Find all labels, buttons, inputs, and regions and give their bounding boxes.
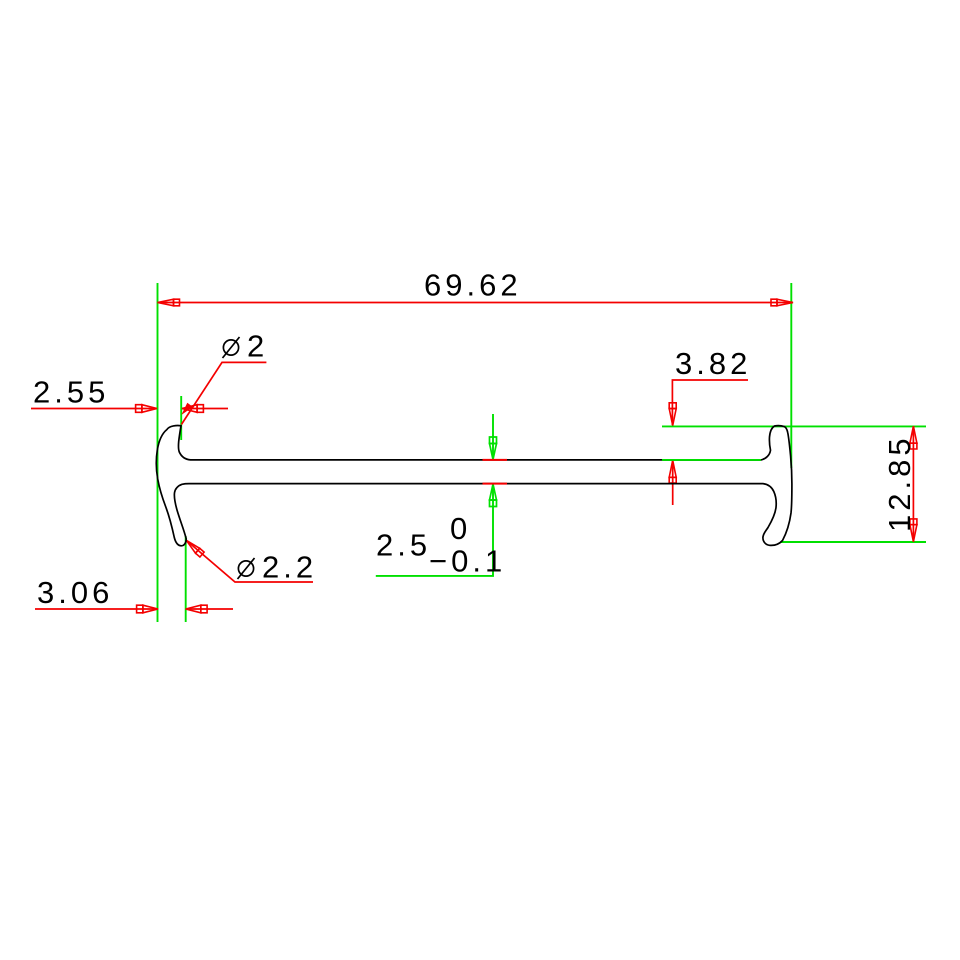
- dimension 3.06 dim line left part with right-pointing arrow: [35, 608, 158, 610]
- extension line left B (x=181 short, for 2.55): [180, 396, 182, 440]
- dimension 3.82 down arrow (tip at profile top y=426): [669, 403, 676, 426]
- dimension 3.82 leader shoulder: [672, 380, 748, 425]
- svg-text:12.85: 12.85: [882, 434, 917, 532]
- dimension 69.62 left arrow: [158, 299, 180, 306]
- extension line left C (x=185.5, for 3.06): [185, 536, 187, 622]
- dimension 69.62 right arrow: [771, 299, 793, 306]
- dimension 3.82 up arrow (tip at web top y=460.3): [672, 460, 674, 505]
- extension line web top green overlay (drawn over web line): [662, 459, 761, 461]
- dimension 3.06 right tail with left-pointing arrow (tip x=185.7): [186, 608, 233, 610]
- dimension 2.55 right tail with left-pointing arrow (tip x=182): [182, 408, 228, 410]
- red tick on web bottom at dim 2.5: [483, 483, 508, 485]
- leader of diameter 2.2 callout: [187, 541, 314, 583]
- extension line left A (x=157.5): [157, 283, 159, 622]
- diameter symbol of callout 2: [223, 337, 240, 358]
- extension line of dim 2.5 vertical lower + corner to text underline: [376, 484, 493, 576]
- leader of diameter 2 callout: [181, 362, 266, 424]
- svg-text:69.62: 69.62: [424, 268, 522, 303]
- dimension 12.85 dim line vertical: [912, 426, 914, 542]
- extension line web top (y=459.9): [662, 459, 761, 461]
- extension line top of profile (y=426.5): [662, 425, 926, 427]
- svg-text:3.82: 3.82: [675, 346, 751, 381]
- profile outline (extruded seal cross-section): [156, 426, 792, 546]
- hollow arrow of diameter 2.2 leader: [187, 541, 205, 558]
- dimension 12.85 top arrow pointing up: [910, 426, 917, 449]
- svg-text:0: 0: [450, 511, 471, 546]
- svg-text:2.5: 2.5: [376, 528, 431, 563]
- svg-text:2.2: 2.2: [262, 550, 317, 585]
- red tick on web top at dim 2.5: [483, 459, 508, 461]
- dimension 2.55 dim line left part with right-pointing arrow: [31, 408, 157, 410]
- green arrow up of dim 2.5 (tip at web bottom): [490, 484, 497, 507]
- extension line of dim 2.5 vertical upper (x=493): [492, 414, 494, 460]
- svg-text:2.55: 2.55: [33, 375, 109, 410]
- svg-text:2: 2: [247, 329, 268, 364]
- green arrow down of dim 2.5 (tip at web top): [490, 437, 497, 460]
- solid arrowhead of diameter 2 leader: [181, 403, 193, 415]
- extension line bottom of profile (y=542): [781, 541, 926, 543]
- svg-text:−0.1: −0.1: [429, 544, 506, 579]
- dimension 12.85 bottom arrow pointing down: [910, 519, 917, 542]
- svg-text:3.06: 3.06: [37, 575, 113, 610]
- extension line right (x=791.3, for 69.62): [790, 283, 792, 468]
- diameter symbol of callout 2.2: [238, 558, 255, 579]
- dimension 69.62 dim line: [158, 302, 794, 304]
